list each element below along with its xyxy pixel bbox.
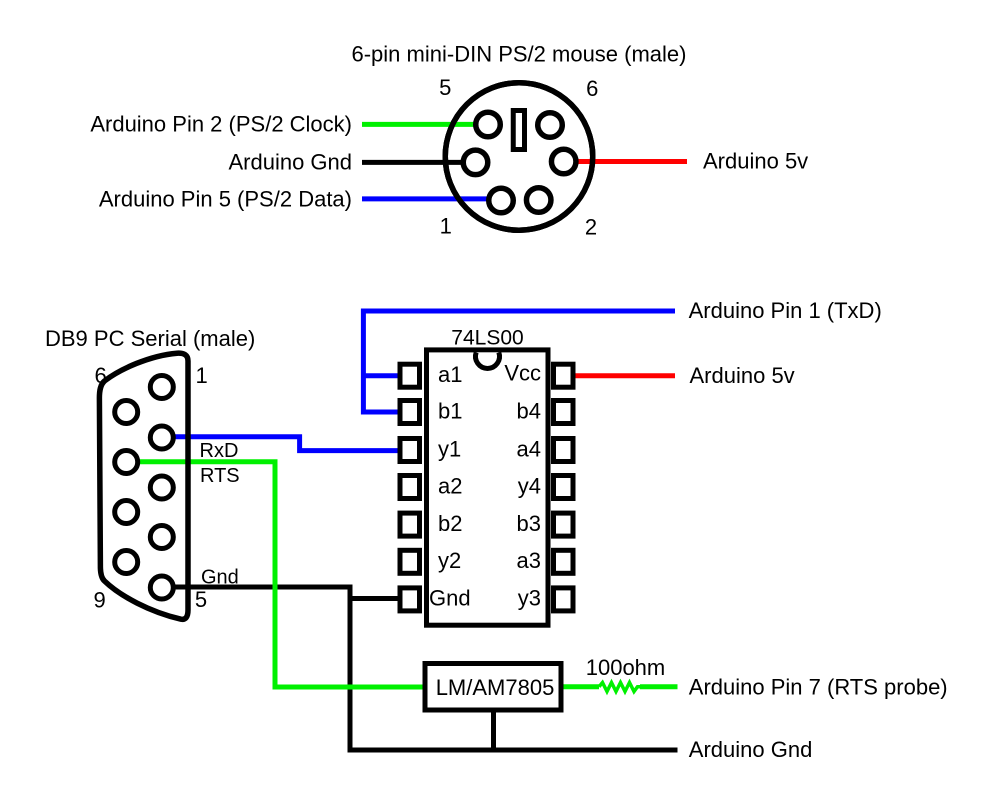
svg-text:1: 1: [196, 363, 208, 388]
svg-text:b4: b4: [517, 398, 541, 423]
svg-text:a3: a3: [517, 548, 541, 573]
svg-text:DB9 PC Serial (male): DB9 PC Serial (male): [45, 326, 255, 351]
svg-text:a1: a1: [438, 362, 462, 387]
svg-text:1: 1: [440, 214, 452, 239]
svg-text:9: 9: [93, 588, 105, 613]
svg-text:y2: y2: [438, 548, 461, 573]
svg-text:Gnd: Gnd: [429, 586, 471, 611]
svg-text:y4: y4: [518, 473, 541, 498]
svg-text:Arduino Pin 2 (PS/2 Clock): Arduino Pin 2 (PS/2 Clock): [90, 112, 352, 137]
svg-text:Arduino 5v: Arduino 5v: [703, 149, 808, 174]
svg-text:5: 5: [439, 75, 451, 100]
svg-text:RxD: RxD: [200, 440, 239, 462]
svg-text:2: 2: [585, 215, 597, 240]
svg-text:b3: b3: [517, 511, 541, 536]
svg-text:Arduino Pin 1 (TxD): Arduino Pin 1 (TxD): [689, 298, 882, 323]
svg-text:6-pin mini-DIN PS/2 mouse (mal: 6-pin mini-DIN PS/2 mouse (male): [352, 42, 687, 67]
svg-text:74LS00: 74LS00: [451, 327, 523, 350]
svg-text:a4: a4: [517, 436, 541, 461]
svg-text:b2: b2: [438, 511, 462, 536]
svg-text:Arduino Pin 7 (RTS probe): Arduino Pin 7 (RTS probe): [689, 675, 948, 700]
svg-text:LM/AM7805: LM/AM7805: [436, 675, 555, 700]
svg-text:Arduino Pin 5 (PS/2 Data): Arduino Pin 5 (PS/2 Data): [99, 186, 352, 211]
svg-text:y3: y3: [518, 586, 541, 611]
svg-text:y1: y1: [438, 436, 461, 461]
svg-text:Vcc: Vcc: [504, 361, 541, 386]
svg-text:RTS: RTS: [200, 465, 240, 487]
svg-text:Arduino Gnd: Arduino Gnd: [228, 150, 352, 175]
svg-text:6: 6: [586, 76, 598, 101]
svg-text:Arduino 5v: Arduino 5v: [690, 363, 795, 388]
svg-text:100ohm: 100ohm: [586, 655, 666, 680]
svg-text:Arduino Gnd: Arduino Gnd: [689, 737, 813, 762]
svg-text:b1: b1: [438, 398, 462, 423]
svg-text:a2: a2: [438, 473, 462, 498]
svg-text:6: 6: [94, 363, 106, 388]
svg-text:Gnd: Gnd: [201, 567, 239, 589]
svg-text:5: 5: [195, 587, 207, 612]
